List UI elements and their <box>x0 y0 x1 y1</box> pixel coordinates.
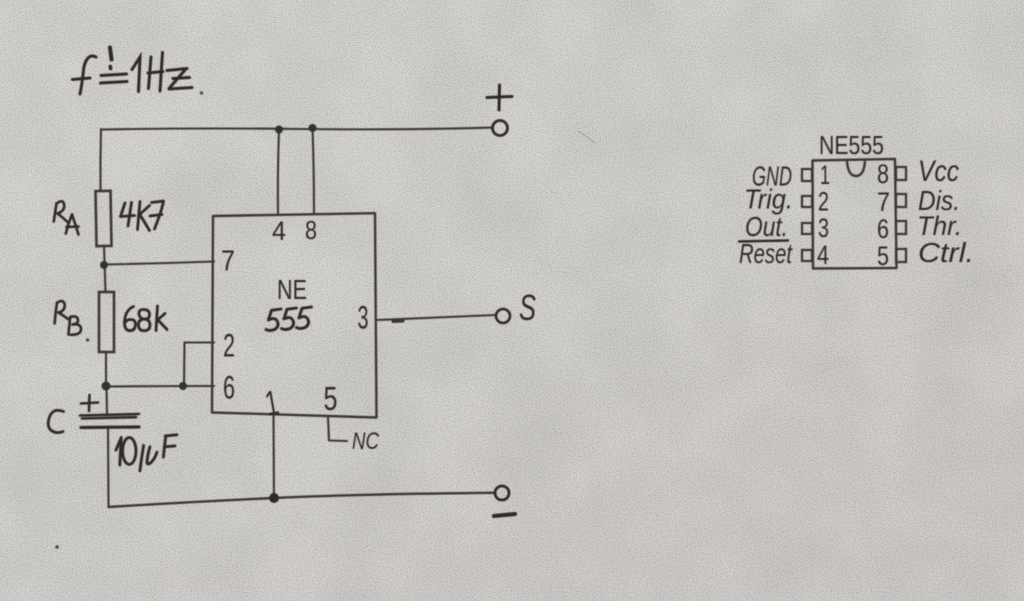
resistor RA body <box>96 191 112 246</box>
svg-text:7: 7 <box>877 187 890 217</box>
svg-text:Reset: Reset <box>739 238 793 269</box>
stray speck bottom left <box>55 545 59 549</box>
title 1Hz <box>132 53 192 92</box>
svg-text:7: 7 <box>221 246 235 278</box>
svg-text:NE555: NE555 <box>819 130 884 160</box>
pinout notch <box>847 161 865 176</box>
wire RB bottom to node <box>105 352 107 386</box>
pinout pin square 4 <box>802 250 812 261</box>
svg-text:Vcc: Vcc <box>918 155 959 188</box>
pinout pin square 1 <box>802 169 812 181</box>
pinout pin square 7 <box>896 194 906 207</box>
svg-text:NE: NE <box>277 274 307 305</box>
label RB <box>55 301 81 335</box>
pinout pin square 6 <box>896 221 906 234</box>
faint paper scratch <box>578 131 595 143</box>
svg-text:Ctrl.: Ctrl. <box>918 237 974 268</box>
svg-text:3: 3 <box>818 213 829 243</box>
ink blot on pin 3 wire <box>393 320 403 324</box>
svg-text:8: 8 <box>877 159 889 189</box>
pinout pin square 8 <box>896 167 906 180</box>
wire pin 3 output <box>377 315 496 320</box>
label C <box>48 410 63 432</box>
svg-text:NC: NC <box>352 428 380 455</box>
junction node pin2/pin6 <box>179 382 187 390</box>
svg-text:5: 5 <box>877 241 889 271</box>
label RA <box>54 201 79 234</box>
wire pin 4 to top rail <box>278 130 279 215</box>
junction node on rail at pin 8 <box>309 124 317 132</box>
value 4K7 <box>121 201 164 231</box>
wire capacitor C bottom to bottom rail <box>107 428 110 507</box>
svg-text:6: 6 <box>223 370 235 406</box>
plus sign label <box>487 85 512 110</box>
wire node RA/RB to pin 7 <box>104 262 214 265</box>
capacitor plus polarity <box>81 395 98 411</box>
title f of f=1Hz <box>73 56 97 94</box>
svg-text:8: 8 <box>305 215 317 245</box>
svg-text:4: 4 <box>272 216 286 246</box>
pinout pin square 3 <box>802 223 812 234</box>
wire pin 5 NC stub <box>328 417 347 441</box>
junction node on rail at pin 4 <box>275 126 283 134</box>
svg-text:2: 2 <box>818 187 829 217</box>
svg-text:S: S <box>519 287 536 328</box>
junction node RB bottom <box>102 382 111 391</box>
title exclamation over equals <box>110 48 112 69</box>
resistor RB body <box>99 292 114 352</box>
svg-text:1: 1 <box>820 160 830 190</box>
pinout label Reset overline <box>739 241 788 242</box>
capacitor C plates <box>80 414 139 419</box>
svg-text:Trig.: Trig. <box>744 184 793 215</box>
IC name 555 <box>266 307 312 331</box>
wire left drop from rail to RA top <box>99 129 102 191</box>
comma after RB <box>86 338 89 341</box>
value 10uF <box>116 435 177 471</box>
value 68k <box>124 306 167 331</box>
junction node RA bottom <box>100 261 108 269</box>
stray dot after title <box>200 91 203 94</box>
wire top supply rail <box>101 128 492 130</box>
wire pin 8 to top rail <box>313 128 315 213</box>
svg-text:4: 4 <box>817 240 829 270</box>
wire RA bottom to RB top <box>104 246 106 292</box>
terminal minus <box>495 486 509 500</box>
terminal output S <box>496 309 510 323</box>
wire node to pin 6 <box>106 385 214 388</box>
IC U1 NE555 body <box>212 213 377 417</box>
terminal plus <box>493 121 508 136</box>
svg-text:2: 2 <box>223 328 235 364</box>
wire bottom rail <box>109 493 495 507</box>
pinout pin square 2 <box>802 196 812 207</box>
svg-text:6: 6 <box>877 214 889 244</box>
wire pin 2 branch <box>184 343 214 387</box>
minus sign label <box>494 514 515 516</box>
svg-text:3: 3 <box>358 300 369 336</box>
junction node bottom rail <box>269 493 279 503</box>
pinout pin square 5 <box>896 249 906 262</box>
wire pin 1 to bottom rail <box>272 416 275 498</box>
title equals sign <box>101 74 128 83</box>
pinout DIP body <box>813 159 897 269</box>
svg-text:5: 5 <box>324 380 338 417</box>
wire node to capacitor C top <box>105 386 108 413</box>
